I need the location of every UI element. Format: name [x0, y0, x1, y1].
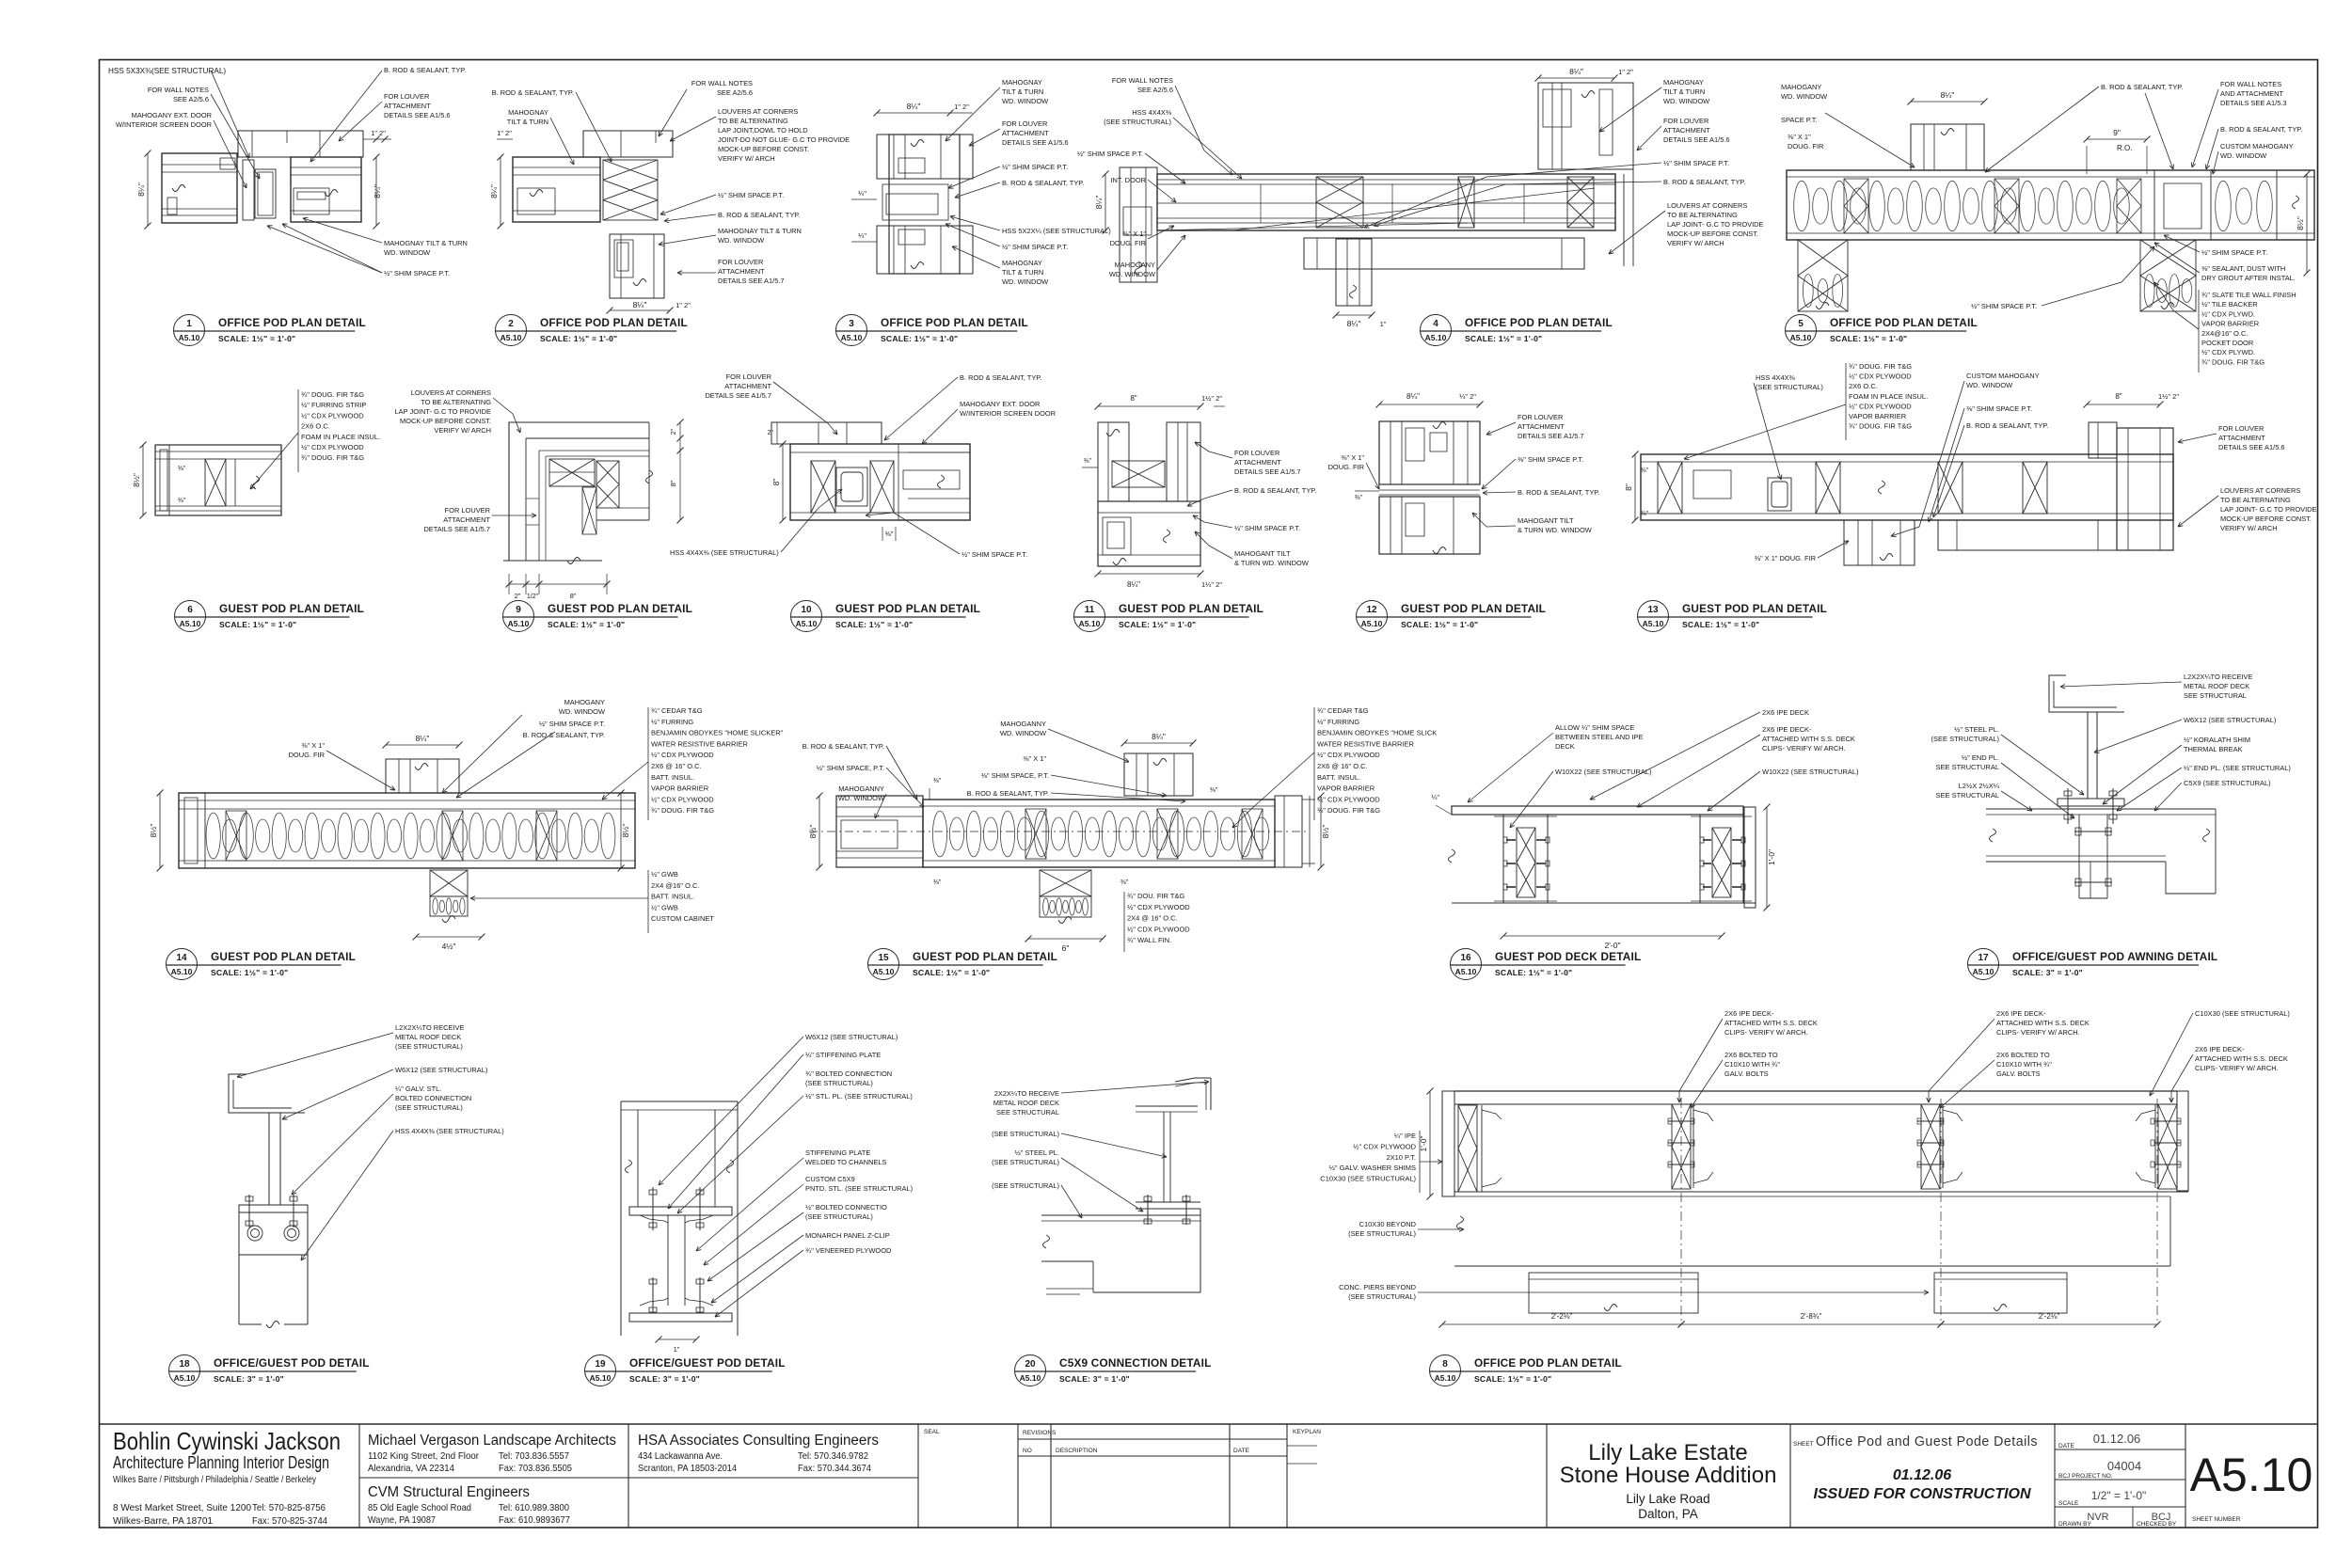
svg-text:ATTACHMENT: ATTACHMENT: [443, 515, 490, 524]
svg-text:LAP JOINT- G.C TO PROVIDE: LAP JOINT- G.C TO PROVIDE: [2220, 505, 2317, 514]
svg-text:SCALE: 1½" = 1'-0": SCALE: 1½" = 1'-0": [1682, 620, 1759, 629]
svg-text:SCALE: 3" = 1'-0": SCALE: 3" = 1'-0": [214, 1374, 284, 1384]
detail 20 deck band: [1041, 1214, 1200, 1216]
svg-text:Tel: 703.836.5557: Tel: 703.836.5557: [499, 1450, 569, 1462]
detail 1 left wall band: [162, 153, 237, 223]
svg-text:½" CDX PLYWOOD: ½" CDX PLYWOOD: [651, 751, 714, 759]
svg-text:ATTACHED WITH S.S. DECK: ATTACHED WITH S.S. DECK: [1724, 1019, 1818, 1027]
svg-text:2'-2⅛": 2'-2⅛": [1551, 1312, 1573, 1321]
detail 16 right end plate: [1744, 807, 1756, 908]
detail 10 title: [791, 601, 822, 632]
detail 11 lower band: [1098, 501, 1200, 566]
svg-text:½" CDX PLYWOOD: ½" CDX PLYWOOD: [1317, 795, 1380, 803]
svg-text:VERIFY W/ ARCH: VERIFY W/ ARCH: [434, 426, 491, 435]
svg-text:L2½X 2½X¼: L2½X 2½X¼: [1959, 782, 2000, 790]
detail 5 right band section: [2153, 170, 2155, 240]
svg-text:½" SHIM SPACE P.T.: ½" SHIM SPACE P.T.: [1663, 159, 1729, 167]
svg-text:SEE A2/5.6: SEE A2/5.6: [1137, 86, 1173, 94]
svg-text:2X4 @ 16" O.C.: 2X4 @ 16" O.C.: [1127, 914, 1178, 923]
svg-text:¾" SLATE TILE WALL FINISH: ¾" SLATE TILE WALL FINISH: [2201, 291, 2296, 299]
svg-text:MOCK-UP BEFORE CONST.: MOCK-UP BEFORE CONST.: [718, 145, 809, 153]
detail 19 middle plate: [629, 1207, 732, 1215]
detail 14 lower right block: [647, 870, 649, 933]
svg-text:04004: 04004: [2107, 1459, 2141, 1473]
svg-text:C10X10 WITH ¾": C10X10 WITH ¾": [1996, 1060, 2052, 1069]
svg-text:⅜": ⅜": [1355, 495, 1363, 501]
detail 6 left dim: [142, 445, 144, 515]
svg-text:W6X12 (SEE STRUCTURAL): W6X12 (SEE STRUCTURAL): [2184, 716, 2277, 724]
svg-text:REVISIONS: REVISIONS: [1023, 1430, 1057, 1436]
svg-text:ATTACHED WITH S.S. DECK: ATTACHED WITH S.S. DECK: [1762, 735, 1855, 743]
svg-text:½" SHIM SPACE P.T.: ½" SHIM SPACE P.T.: [384, 269, 450, 277]
svg-text:9: 9: [516, 605, 521, 615]
svg-text:01.12.06: 01.12.06: [2093, 1432, 2141, 1446]
svg-text:⅜" X 1": ⅜" X 1": [1023, 754, 1046, 763]
svg-text:6: 6: [187, 605, 193, 615]
svg-text:SCALE: SCALE: [2058, 1500, 2079, 1507]
svg-text:LOUVERS AT CORNERS: LOUVERS AT CORNERS: [1667, 201, 1747, 210]
svg-text:½" SHIM SPACE P.T.: ½" SHIM SPACE P.T.: [1002, 163, 1068, 171]
detail 20 roof angle: [1210, 1078, 1212, 1110]
svg-text:TO BE ALTERNATING: TO BE ALTERNATING: [1667, 211, 1738, 219]
svg-text:CLIPS- VERIFY W/ ARCH.: CLIPS- VERIFY W/ ARCH.: [1762, 744, 1846, 752]
svg-text:Stone House Addition: Stone House Addition: [1560, 1463, 1777, 1488]
svg-text:B. ROD & SEALANT, TYP.: B. ROD & SEALANT, TYP.: [1234, 486, 1316, 495]
svg-text:BCJ: BCJ: [2152, 1512, 2171, 1523]
svg-text:FOR WALL NOTES: FOR WALL NOTES: [2220, 80, 2281, 88]
svg-text:⅜": ⅜": [933, 879, 942, 886]
svg-text:W6X12 (SEE STRUCTURAL): W6X12 (SEE STRUCTURAL): [805, 1033, 898, 1041]
svg-text:C5X9 CONNECTION DETAIL: C5X9 CONNECTION DETAIL: [1059, 1356, 1212, 1370]
detail 8 title: [1430, 1355, 1461, 1386]
detail 13 lower left window assembly: [1844, 520, 1915, 565]
svg-text:SCALE: 1½" = 1'-0": SCALE: 1½" = 1'-0": [540, 334, 617, 343]
svg-text:2": 2": [671, 428, 677, 435]
svg-text:WD. WINDOW: WD. WINDOW: [1663, 97, 1709, 105]
detail 4 lower stub dims: [1336, 314, 1372, 316]
svg-text:SCALE: 1½" = 1'-0": SCALE: 1½" = 1'-0": [1495, 968, 1572, 977]
svg-text:13: 13: [1647, 605, 1659, 615]
detail 10 left dim: [782, 444, 784, 520]
svg-text:2": 2": [515, 592, 521, 600]
detail 17 W6X12 beam: [2058, 711, 2124, 713]
title block michael vergason cell: [359, 1477, 918, 1479]
svg-text:8½": 8½": [132, 473, 141, 487]
svg-text:HSA Associates Consulting Engi: HSA Associates Consulting Engineers: [638, 1433, 879, 1449]
svg-text:DETAILS SEE A1/5.7: DETAILS SEE A1/5.7: [423, 525, 490, 533]
svg-text:DETAILS SEE A1/5.7: DETAILS SEE A1/5.7: [718, 277, 785, 285]
detail 10 right door section: [898, 444, 899, 520]
svg-text:15: 15: [878, 953, 889, 963]
svg-text:Bohlin Cywinski Jackson: Bohlin Cywinski Jackson: [113, 1427, 341, 1455]
svg-text:FOR LOUVER: FOR LOUVER: [445, 506, 491, 515]
detail 2 title: [496, 315, 527, 346]
svg-text:WATER RESISTIVE BARRIER: WATER RESISTIVE BARRIER: [651, 739, 749, 748]
svg-text:SEAL: SEAL: [924, 1429, 940, 1435]
svg-text:WD. WINDOW: WD. WINDOW: [1109, 270, 1155, 278]
svg-text:ATTACHMENT: ATTACHMENT: [2218, 434, 2265, 442]
svg-text:DATE: DATE: [2058, 1443, 2075, 1449]
svg-text:CLIPS- VERIFY W/ ARCH.: CLIPS- VERIFY W/ ARCH.: [2195, 1064, 2279, 1072]
svg-text:MAHOGNAY: MAHOGNAY: [1002, 259, 1042, 267]
svg-text:L2X2X¼TO RECEIVE: L2X2X¼TO RECEIVE: [395, 1023, 464, 1032]
detail 18 plate with bolt circles: [239, 1212, 308, 1255]
svg-text:GALV. BOLTS: GALV. BOLTS: [1996, 1069, 2041, 1078]
svg-text:1¼" 2": 1¼" 2": [1201, 580, 1222, 589]
svg-text:⅜" SHIM SPACE P.T.: ⅜" SHIM SPACE P.T.: [1966, 404, 2032, 413]
svg-text:LAP JOINT- G.C TO PROVIDE: LAP JOINT- G.C TO PROVIDE: [395, 407, 492, 416]
svg-text:½" CDX PLYWD.: ½" CDX PLYWD.: [2201, 348, 2255, 356]
svg-text:⅜": ⅜": [1210, 787, 1218, 794]
detail 3 title: [836, 315, 867, 346]
svg-text:2X2X¼TO RECEIVE: 2X2X¼TO RECEIVE: [994, 1089, 1059, 1098]
svg-text:¾" DOUG. FIR T&G: ¾" DOUG. FIR T&G: [1317, 806, 1380, 815]
svg-text:BCJ PROJECT NO.: BCJ PROJECT NO.: [2058, 1473, 2113, 1480]
detail 10 window square with X braces: [811, 461, 835, 513]
detail 16 left W beam: [1502, 815, 1504, 903]
detail 12 upper block: [1379, 421, 1480, 484]
svg-text:2X6 O.C.: 2X6 O.C.: [1849, 382, 1878, 390]
svg-text:9": 9": [2113, 128, 2121, 137]
svg-text:Michael Vergason Landscape Arc: Michael Vergason Landscape Architects: [368, 1433, 616, 1449]
detail 9 bottom dims: [508, 574, 510, 594]
svg-text:SEE STRUCTURAL: SEE STRUCTURAL: [1935, 763, 1999, 771]
svg-text:WD. WINDOW: WD. WINDOW: [1000, 729, 1046, 737]
svg-text:2X6 IPE DECK: 2X6 IPE DECK: [1762, 708, 1809, 717]
svg-text:Fax: 703.836.5505: Fax: 703.836.5505: [499, 1463, 572, 1474]
svg-text:MOCK-UP BEFORE CONST.: MOCK-UP BEFORE CONST.: [1667, 230, 1758, 238]
detail 19 lower bolts: [652, 1277, 654, 1313]
svg-text:½" SHIM SPACE P.T.: ½" SHIM SPACE P.T.: [1002, 243, 1068, 251]
svg-text:¼" 2": ¼" 2": [1459, 392, 1476, 401]
svg-text:OFFICE POD PLAN DETAIL: OFFICE POD PLAN DETAIL: [1474, 1356, 1622, 1370]
svg-text:1": 1": [674, 1345, 680, 1354]
svg-text:2X6 IPE DECK-: 2X6 IPE DECK-: [1724, 1009, 1774, 1018]
svg-text:DOUG. FIR: DOUG. FIR: [289, 751, 326, 759]
svg-text:¾" DOU. FIR T&G: ¾" DOU. FIR T&G: [1127, 892, 1184, 900]
svg-text:OFFICE/GUEST POD DETAIL: OFFICE/GUEST POD DETAIL: [214, 1356, 370, 1370]
detail 4 lower band: [1304, 238, 1584, 269]
detail 13 material block: [1845, 363, 1847, 440]
svg-text:¾" VENEERED PLYWOOD: ¾" VENEERED PLYWOOD: [805, 1246, 892, 1255]
detail 5 window assembly above: [1911, 124, 1984, 170]
detail 2 X braced corner box: [603, 160, 658, 220]
svg-text:¾" DOUG. FIR T&G: ¾" DOUG. FIR T&G: [2201, 357, 2265, 366]
svg-text:GUEST POD PLAN DETAIL: GUEST POD PLAN DETAIL: [548, 602, 692, 615]
svg-text:Fax: 570.344.3674: Fax: 570.344.3674: [798, 1463, 871, 1474]
svg-text:A5.10: A5.10: [1361, 619, 1383, 628]
svg-text:¾" BOLTED CONNECTION: ¾" BOLTED CONNECTION: [805, 1069, 892, 1078]
detail 12 top dim: [1379, 404, 1480, 405]
svg-text:½" CDX PLYWOOD: ½" CDX PLYWOOD: [301, 443, 364, 451]
svg-text:CUSTOM MAHOGANY: CUSTOM MAHOGANY: [2220, 142, 2294, 150]
detail 8 left end plate: [1442, 1091, 1454, 1196]
detail 11 title: [1074, 601, 1105, 632]
detail 3 top dimension: [877, 112, 950, 114]
detail 9 right dim: [679, 422, 681, 520]
svg-text:A5.10: A5.10: [1455, 967, 1477, 976]
svg-text:1" 2": 1" 2": [371, 129, 386, 137]
svg-text:01.12.06: 01.12.06: [1893, 1467, 1951, 1483]
svg-text:4½": 4½": [442, 942, 456, 951]
svg-text:½" SHIM SPACE P.T.: ½" SHIM SPACE P.T.: [961, 550, 1027, 559]
svg-text:10: 10: [801, 605, 812, 615]
svg-text:ATTACHMENT: ATTACHMENT: [1234, 458, 1281, 467]
detail 5 RO dim: [2087, 138, 2147, 140]
svg-text:FOR WALL NOTES: FOR WALL NOTES: [691, 79, 753, 87]
svg-text:MAHOGANT TILT: MAHOGANT TILT: [1518, 516, 1574, 525]
svg-text:MAHOGANY: MAHOGANY: [1115, 261, 1155, 269]
svg-text:SCALE: 3" = 1'-0": SCALE: 3" = 1'-0": [2012, 968, 2083, 977]
detail 15 bottom stub: [1040, 870, 1091, 896]
svg-text:MAHOGANY EXT. DOOR: MAHOGANY EXT. DOOR: [132, 111, 213, 119]
svg-text:(SEE STRUCTURAL): (SEE STRUCTURAL): [992, 1181, 1059, 1190]
svg-text:LOUVERS AT CORNERS: LOUVERS AT CORNERS: [411, 388, 491, 397]
svg-text:WD. WINDOW: WD. WINDOW: [1002, 277, 1048, 286]
detail 19 title: [585, 1355, 616, 1386]
svg-text:½" CDX PLYWOOD: ½" CDX PLYWOOD: [1849, 402, 1912, 410]
detail 18 title: [169, 1355, 200, 1386]
svg-text:A5.10: A5.10: [174, 1373, 196, 1383]
svg-text:VERIFY W/ ARCH: VERIFY W/ ARCH: [718, 154, 775, 163]
detail 4 left vertical jamb: [1120, 167, 1157, 282]
svg-text:½" GWB: ½" GWB: [651, 903, 678, 911]
svg-text:6": 6": [1062, 943, 1070, 953]
svg-text:Tel: 610.989.3800: Tel: 610.989.3800: [499, 1502, 569, 1513]
svg-text:A5.10: A5.10: [796, 619, 818, 628]
svg-text:2X10 P.T.: 2X10 P.T.: [1386, 1153, 1416, 1162]
detail 11 top dim: [1098, 405, 1200, 407]
detail 11 upper window columns: [1098, 422, 1129, 501]
svg-text:MAHOGNAY: MAHOGNAY: [1663, 78, 1704, 87]
svg-text:A5.10: A5.10: [179, 333, 200, 342]
svg-text:OFFICE POD PLAN DETAIL: OFFICE POD PLAN DETAIL: [881, 316, 1028, 329]
svg-text:2X6 O.C.: 2X6 O.C.: [301, 422, 330, 431]
svg-text:⅜" X 1": ⅜" X 1": [1788, 133, 1811, 141]
svg-text:HSS 4X4X⅜: HSS 4X4X⅜: [1756, 373, 1796, 382]
svg-text:GUEST POD PLAN DETAIL: GUEST POD PLAN DETAIL: [1682, 602, 1827, 615]
svg-text:MOCK-UP BEFORE CONST.: MOCK-UP BEFORE CONST.: [2220, 515, 2312, 523]
svg-text:¾" WALL FIN.: ¾" WALL FIN.: [1127, 936, 1171, 944]
svg-text:ATTACHMENT: ATTACHMENT: [1663, 126, 1710, 135]
svg-text:FOR LOUVER: FOR LOUVER: [2218, 424, 2265, 433]
svg-text:¼" STIFFENING PLATE: ¼" STIFFENING PLATE: [805, 1051, 881, 1059]
svg-text:DETAILS SEE A1/5.7: DETAILS SEE A1/5.7: [1518, 432, 1584, 440]
svg-text:WD. WINDOW: WD. WINDOW: [2220, 151, 2266, 160]
svg-text:A5.10: A5.10: [873, 967, 895, 976]
detail 16 deck band: [1452, 806, 1743, 815]
svg-text:⅜" X 1" DOUG. FIR: ⅜" X 1" DOUG. FIR: [1755, 554, 1817, 562]
svg-text:MAHOGANNY: MAHOGANNY: [1000, 720, 1046, 728]
svg-text:½" CDX PLYWOOD: ½" CDX PLYWOOD: [651, 795, 714, 803]
svg-text:8: 8: [1442, 1359, 1448, 1370]
svg-text:DETAILS SEE A1/5.6: DETAILS SEE A1/5.6: [1663, 135, 1730, 144]
svg-text:½" END PL.: ½" END PL.: [1962, 753, 1999, 762]
detail 13 lower leg: [1938, 520, 2117, 550]
svg-text:1102 King Street, 2nd Floor: 1102 King Street, 2nd Floor: [368, 1450, 479, 1462]
svg-text:8½": 8½": [808, 825, 818, 839]
detail 10 top lintel: [771, 422, 882, 444]
detail 9 corner outer walls: [509, 422, 649, 561]
svg-text:SCALE: 1½" = 1'-0": SCALE: 1½" = 1'-0": [1474, 1374, 1551, 1384]
detail 15 right material block: [1313, 707, 1315, 820]
detail 1 right dimension 8 1/4: [375, 157, 377, 226]
svg-text:SCALE: 1½" = 1'-0": SCALE: 1½" = 1'-0": [1465, 334, 1542, 343]
svg-text:TILT & TURN: TILT & TURN: [1663, 87, 1705, 96]
svg-text:8¼": 8¼": [1094, 196, 1104, 210]
svg-text:HSS 5X2X¼ (SEE STRUCTURAL): HSS 5X2X¼ (SEE STRUCTURAL): [1002, 227, 1111, 235]
detail 9 title: [503, 601, 534, 632]
svg-text:(SEE STRUCTURAL): (SEE STRUCTURAL): [395, 1103, 463, 1112]
svg-text:Tel: 570-825-8756: Tel: 570-825-8756: [252, 1502, 326, 1513]
svg-text:VAPOR BARRIER: VAPOR BARRIER: [1317, 784, 1375, 793]
svg-text:¼" GALV. STL.: ¼" GALV. STL.: [395, 1085, 441, 1093]
svg-text:STIFFENING PLATE: STIFFENING PLATE: [805, 1148, 870, 1157]
detail 19 lower I beam: [667, 1215, 669, 1306]
svg-text:FOR LOUVER: FOR LOUVER: [1518, 413, 1564, 421]
detail 15 top right window: [1124, 753, 1193, 796]
svg-text:2X4 @16" O.C.: 2X4 @16" O.C.: [651, 881, 700, 890]
svg-text:A5.10: A5.10: [590, 1373, 612, 1383]
svg-text:DATE: DATE: [1233, 1448, 1250, 1454]
svg-text:⅜" SEALANT, DUST WITH: ⅜" SEALANT, DUST WITH: [2201, 264, 2285, 273]
svg-text:2'-8¾": 2'-8¾": [1801, 1312, 1822, 1321]
detail 8 dim line: [1442, 1323, 1681, 1325]
detail 17 bolts upper: [2067, 788, 2069, 824]
svg-text:A5.10: A5.10: [508, 619, 530, 628]
detail 15 main band: [923, 800, 1275, 867]
svg-text:½" BOLTED CONNECTIO: ½" BOLTED CONNECTIO: [805, 1203, 887, 1212]
svg-text:A5.10: A5.10: [1790, 333, 1812, 342]
svg-text:FOR WALL NOTES: FOR WALL NOTES: [1112, 76, 1173, 85]
svg-text:HSS 4X4X⅜ (SEE STRUCTURAL): HSS 4X4X⅜ (SEE STRUCTURAL): [670, 548, 779, 557]
svg-text:(SEE STRUCTURAL): (SEE STRUCTURAL): [992, 1130, 1059, 1138]
svg-text:⅜" X 1": ⅜" X 1": [1341, 453, 1364, 462]
svg-text:VERIFY W/ ARCH: VERIFY W/ ARCH: [1667, 239, 1724, 247]
svg-text:SEE A2/5.6: SEE A2/5.6: [717, 88, 753, 97]
detail 9 right leg return: [619, 507, 649, 509]
svg-text:1" 2": 1" 2": [497, 129, 512, 137]
svg-text:½" STEEL PL.: ½" STEEL PL.: [1954, 725, 1999, 734]
svg-text:WD. WINDOW: WD. WINDOW: [718, 236, 764, 245]
svg-text:W6X12 (SEE STRUCTURAL): W6X12 (SEE STRUCTURAL): [395, 1066, 488, 1074]
svg-text:8½": 8½": [1321, 825, 1330, 839]
svg-text:OFFICE POD PLAN DETAIL: OFFICE POD PLAN DETAIL: [218, 316, 366, 329]
svg-text:½" SHIM SPACE P.T.: ½" SHIM SPACE P.T.: [1234, 524, 1300, 532]
svg-text:LOUVERS AT CORNERS: LOUVERS AT CORNERS: [2220, 486, 2300, 495]
detail 4 title: [1421, 315, 1452, 346]
svg-text:B. ROD & SEALANT, TYP.: B. ROD & SEALANT, TYP.: [492, 88, 574, 97]
svg-text:HSS 4X4X⅜ (SEE STRUCTURAL): HSS 4X4X⅜ (SEE STRUCTURAL): [395, 1127, 504, 1135]
svg-text:(SEE STRUCTURAL): (SEE STRUCTURAL): [395, 1042, 463, 1051]
detail 5 main wall band with insulation: [1787, 170, 2314, 240]
detail 13 main band: [1641, 454, 2173, 520]
svg-text:SCALE: 1½" = 1'-0": SCALE: 1½" = 1'-0": [913, 968, 990, 977]
svg-text:SCALE: 1½" = 1'-0": SCALE: 1½" = 1'-0": [218, 334, 295, 343]
svg-text:20: 20: [1025, 1359, 1036, 1370]
svg-text:ISSUED FOR CONSTRUCTION: ISSUED FOR CONSTRUCTION: [1813, 1486, 2031, 1502]
svg-text:½" SHIM SPACE P.T.: ½" SHIM SPACE P.T.: [2201, 248, 2267, 257]
svg-text:8": 8": [771, 479, 781, 486]
detail 18 roof angle: [229, 1074, 305, 1113]
svg-text:A5.10: A5.10: [2190, 1449, 2313, 1501]
svg-text:1" 2": 1" 2": [1618, 68, 1633, 76]
svg-text:W10X22 (SEE STRUCTURAL): W10X22 (SEE STRUCTURAL): [1762, 768, 1859, 776]
svg-text:FOR LOUVER: FOR LOUVER: [384, 92, 430, 101]
detail 1 right wall band: [291, 157, 361, 222]
detail 6 X brace: [205, 459, 226, 506]
detail 12 lower block: [1379, 497, 1480, 554]
svg-text:A5.10: A5.10: [1020, 1373, 1041, 1383]
svg-text:A5.10: A5.10: [180, 619, 201, 628]
svg-text:½" CDX PLYWOOD: ½" CDX PLYWOOD: [1317, 751, 1380, 759]
svg-text:SCALE: 1½" = 1'-0": SCALE: 1½" = 1'-0": [835, 620, 913, 629]
detail 15 right cap: [1275, 796, 1302, 867]
detail 5 below stubs: [1798, 240, 1848, 311]
svg-text:CVM Structural Engineers: CVM Structural Engineers: [368, 1484, 530, 1500]
svg-text:Office Pod and Guest Pode Deta: Office Pod and Guest Pode Details: [1816, 1434, 2038, 1449]
svg-text:B. ROD & SEALANT, TYP.: B. ROD & SEALANT, TYP.: [967, 789, 1049, 798]
svg-text:4: 4: [1433, 319, 1438, 329]
svg-text:GUEST POD PLAN DETAIL: GUEST POD PLAN DETAIL: [1119, 602, 1263, 615]
svg-text:GUEST POD PLAN DETAIL: GUEST POD PLAN DETAIL: [835, 602, 980, 615]
detail 3 vertical wall assembly: [889, 135, 960, 274]
svg-text:NVR: NVR: [2087, 1512, 2108, 1523]
svg-text:FOR LOUVER: FOR LOUVER: [1002, 119, 1048, 128]
svg-text:MAHOGNAY TILT & TURN: MAHOGNAY TILT & TURN: [384, 239, 468, 247]
detail 14 right dim: [620, 793, 622, 868]
svg-text:OFFICE POD PLAN DETAIL: OFFICE POD PLAN DETAIL: [1830, 316, 1978, 329]
detail 16 bottom flange line: [1452, 902, 1756, 904]
detail 5 X brace cols in band: [1844, 179, 1868, 233]
svg-text:2X6 IPE DECK-: 2X6 IPE DECK-: [2195, 1045, 2245, 1053]
svg-text:8¼": 8¼": [1152, 732, 1166, 741]
svg-text:18: 18: [179, 1359, 190, 1370]
svg-text:½" CDX PLYWOOD: ½" CDX PLYWOOD: [1127, 903, 1190, 911]
svg-text:5: 5: [1798, 319, 1804, 329]
detail 16 dims: [1503, 935, 1722, 937]
svg-text:SCALE: 1½" = 1'-0": SCALE: 1½" = 1'-0": [1401, 620, 1478, 629]
svg-text:CUSTOM C5X9: CUSTOM C5X9: [805, 1175, 855, 1183]
svg-text:⅜": ⅜": [178, 466, 186, 472]
svg-text:SCALE: 1½" = 1'-0": SCALE: 1½" = 1'-0": [548, 620, 625, 629]
svg-text:¾" DOUG. FIR T&G: ¾" DOUG. FIR T&G: [1849, 422, 1912, 431]
detail 17 wall band: [1986, 808, 2216, 810]
svg-text:BATT. INSUL.: BATT. INSUL.: [651, 893, 694, 901]
svg-text:2: 2: [508, 319, 514, 329]
svg-text:LOUVERS AT CORNERS: LOUVERS AT CORNERS: [718, 107, 798, 116]
svg-text:(SEE STRUCTURAL): (SEE STRUCTURAL): [1931, 735, 1999, 743]
svg-text:1/2": 1/2": [527, 594, 539, 600]
svg-text:ATTACHMENT: ATTACHMENT: [724, 382, 771, 390]
svg-text:8¼": 8¼": [907, 102, 921, 111]
svg-text:⅜": ⅜": [885, 530, 894, 538]
svg-text:MONARCH PANEL Z-CLIP: MONARCH PANEL Z-CLIP: [805, 1231, 890, 1240]
svg-text:¼": ¼": [858, 189, 866, 198]
svg-text:¾" CEDAR T&G: ¾" CEDAR T&G: [1317, 706, 1369, 715]
svg-text:ATTACHED WITH S.S. DECK: ATTACHED WITH S.S. DECK: [2195, 1054, 2288, 1063]
svg-text:¼": ¼": [1432, 795, 1440, 801]
svg-text:1" 2": 1" 2": [954, 103, 969, 111]
svg-text:CLIPS- VERIFY W/ ARCH.: CLIPS- VERIFY W/ ARCH.: [1724, 1028, 1808, 1037]
svg-text:SHEET: SHEET: [1793, 1441, 1814, 1448]
svg-text:SCALE: 1½" = 1'-0": SCALE: 1½" = 1'-0": [881, 334, 958, 343]
svg-text:WELDED TO CHANNELS: WELDED TO CHANNELS: [805, 1158, 887, 1166]
svg-text:B. ROD & SEALANT, TYP.: B. ROD & SEALANT, TYP.: [523, 731, 605, 739]
svg-text:⅜": ⅜": [1120, 879, 1129, 886]
svg-text:2X6 IPE DECK-: 2X6 IPE DECK-: [1996, 1009, 2046, 1018]
detail 17 title: [1968, 949, 1999, 980]
